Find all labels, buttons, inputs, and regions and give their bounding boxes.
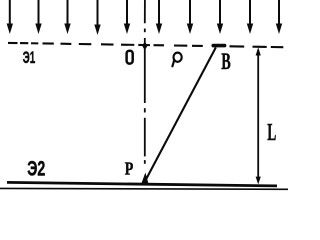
svg-text:Э2: Э2 <box>27 156 45 180</box>
svg-text:Э1: Э1 <box>23 48 36 67</box>
field arrow 3 <box>64 0 70 34</box>
axis centerline (dash-dot) through O and P <box>144 0 146 164</box>
node O marker <box>142 42 148 51</box>
svg-text:L: L <box>267 120 276 146</box>
svg-text:P: P <box>125 159 134 179</box>
field arrow 7 <box>187 0 193 34</box>
electrode Э1 dashed line <box>8 43 283 47</box>
field arrow 6 <box>156 0 162 34</box>
label rho <box>172 53 181 67</box>
line P to B <box>145 48 216 182</box>
field arrow 5 <box>124 0 130 34</box>
dimension arrow L <box>256 47 261 184</box>
node P junction <box>141 173 148 184</box>
electrode Э2 plate (thick line) <box>7 182 277 186</box>
field arrow 1 <box>7 0 13 34</box>
field arrow 9 <box>247 0 253 34</box>
svg-text:B: B <box>221 49 231 74</box>
label O (drawn zero) <box>127 51 133 64</box>
field arrow 10 <box>276 0 282 34</box>
field arrow 8 <box>217 0 223 34</box>
field arrow 2 <box>35 0 41 34</box>
field arrow 4 <box>94 0 100 35</box>
electrode Э2 lower line <box>0 187 288 190</box>
bar at point B <box>212 44 227 48</box>
